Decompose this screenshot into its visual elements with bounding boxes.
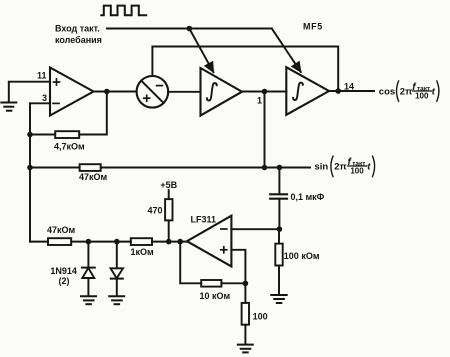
svg-text:10 кОм: 10 кОм xyxy=(200,291,231,301)
LF311 plus sign xyxy=(221,247,227,253)
fraction bar (cos) xyxy=(413,90,432,92)
resistor 4,7кОм xyxy=(55,131,79,138)
wire: 470 down to output node xyxy=(168,220,170,241)
capacitor 0,1 мкФ xyxy=(270,194,287,198)
svg-text:sin: sin xyxy=(315,161,329,172)
label MF5 xyxy=(303,22,323,32)
wire: integrator 1 to integrator 2 xyxy=(242,91,286,93)
svg-text:0,1 мкФ: 0,1 мкФ xyxy=(291,192,325,202)
wire: 10k to node C xyxy=(221,282,245,284)
wire: LF311 non-inverting input xyxy=(231,250,245,284)
node: diode D2 tap xyxy=(114,239,120,245)
integral sign (integrator 1) xyxy=(207,83,217,100)
diode D2 (pointing down) xyxy=(116,242,118,269)
node: integrator tap on sin line xyxy=(262,165,268,171)
svg-text:колебания: колебания xyxy=(55,35,102,45)
wire: op-amp pin 11 to ground xyxy=(9,82,50,102)
parentheses (sin) xyxy=(331,156,375,176)
wire: clock arrow to integrator 2 xyxy=(272,29,301,73)
label 1N914 (2) xyxy=(50,266,77,286)
resistor 47кОм (bottom) xyxy=(48,238,71,245)
node: bus / 4.7k junction xyxy=(27,132,33,138)
resistor 10кОм xyxy=(201,280,221,287)
node 1 xyxy=(262,89,268,95)
LF311 minus sign xyxy=(221,228,227,230)
svg-text:11: 11 xyxy=(37,71,47,81)
svg-text:1кОм: 1кОм xyxy=(131,247,155,257)
node: capacitor tap on sin line xyxy=(277,165,283,171)
junction on clock line xyxy=(187,26,193,32)
svg-text:t: t xyxy=(432,87,436,98)
ground (bottom) xyxy=(238,345,253,353)
svg-text:47кОм: 47кОм xyxy=(79,172,108,182)
wire: node 1 down to sin line xyxy=(264,92,266,168)
wire: integrator 2 output / pin 14 xyxy=(329,90,374,92)
label node 1 xyxy=(257,96,262,106)
op-amp U1 (pins 11/3) xyxy=(50,68,94,116)
comparator LF311 xyxy=(187,216,232,267)
wire: node C down to 100 xyxy=(244,283,246,303)
wire: +5V to 470 xyxy=(168,190,170,199)
integrator 2 xyxy=(286,67,329,115)
wire: capacitor to node B xyxy=(278,199,280,230)
parentheses (cos) xyxy=(397,81,439,101)
wire: clock arrow to integrator 1 xyxy=(189,29,213,73)
svg-text:(2): (2) xyxy=(59,276,70,286)
diode D1 (pointing up) xyxy=(87,242,89,268)
formula sin(2π f/100 t) xyxy=(315,157,372,176)
svg-text:100: 100 xyxy=(253,311,268,321)
svg-text:Вход такт.: Вход такт. xyxy=(55,24,100,34)
svg-text:3: 3 xyxy=(42,93,47,103)
node: bus / sin line xyxy=(27,165,33,171)
wire: sin line xyxy=(30,167,310,169)
node C: hysteresis divider xyxy=(243,281,249,287)
wire: sin line down to capacitor xyxy=(278,168,280,195)
wire: 1k to comparator output node xyxy=(152,241,187,243)
integrator 1 xyxy=(201,68,243,116)
clock waveform symbol xyxy=(101,6,146,16)
node: 470 pull-up tap xyxy=(166,239,172,245)
node: pin 14 output xyxy=(335,88,341,94)
wire: 100k to ground xyxy=(278,266,280,295)
modulator plus sign xyxy=(144,95,150,101)
svg-text:1N914: 1N914 xyxy=(50,266,77,276)
svg-text:MF5: MF5 xyxy=(303,22,323,32)
formula cos(2π f/100 t) xyxy=(379,82,436,101)
resistor 100 xyxy=(242,303,249,325)
label +5В xyxy=(160,180,177,190)
wire: left vertical bus xyxy=(29,103,31,241)
node B: cap / 100k / comparator inverting input xyxy=(277,226,283,232)
svg-text:cos: cos xyxy=(379,86,395,97)
wire: op-amp output to modulator xyxy=(94,91,137,93)
modulator minus sign xyxy=(157,85,163,87)
ground (top-left) xyxy=(1,103,16,111)
svg-text:t: t xyxy=(367,162,371,173)
pin label 14 xyxy=(344,82,354,92)
svg-text:2π: 2π xyxy=(334,162,347,173)
resistor 1кОм xyxy=(131,238,152,245)
wire: feedback from node 14 to modulator top xyxy=(152,47,338,92)
svg-text:100 кОм: 100 кОм xyxy=(284,251,320,261)
svg-text:1: 1 xyxy=(257,96,262,106)
wire: op-amp pin 3 input xyxy=(30,102,50,104)
resistor 100кОм xyxy=(275,244,282,266)
pin label 11 xyxy=(37,71,47,81)
wire: node B to LF311 inverting input xyxy=(231,228,279,230)
resistor 47кОм (sin line) xyxy=(80,164,101,171)
modulator (summing) circle xyxy=(137,76,169,108)
ground (under 100k) xyxy=(271,295,286,303)
wire: clock input horizontal xyxy=(107,28,272,30)
modulator diagonal xyxy=(141,81,163,103)
wire: 4.7k left to bus xyxy=(30,134,55,136)
node: comparator output xyxy=(177,239,183,245)
svg-text:100: 100 xyxy=(415,92,429,101)
wire: output node down to 4.7k feedback xyxy=(79,92,107,135)
pin label 3 xyxy=(42,93,47,103)
svg-text:470: 470 xyxy=(147,205,162,215)
node: op-amp output xyxy=(104,89,110,95)
svg-text:+5В: +5В xyxy=(160,180,177,190)
label LF311 xyxy=(191,215,217,225)
svg-text:14: 14 xyxy=(344,82,354,92)
svg-text:2π: 2π xyxy=(400,87,413,98)
wire: comparator output down to 10k xyxy=(180,242,201,284)
wire: bus corner to bottom 47k xyxy=(30,241,48,243)
svg-text:47кОм: 47кОм xyxy=(47,225,76,235)
wire: 100 to ground xyxy=(244,325,246,344)
wire: node B down to 100k xyxy=(278,229,280,243)
integral sign (integrator 2) xyxy=(293,83,303,100)
fraction bar (sin) xyxy=(348,165,367,167)
ground (under D2) xyxy=(109,296,124,304)
ground (under D1) xyxy=(81,296,96,304)
wire: 47k to 1k xyxy=(71,241,131,243)
wire: modulator to integrator 1 xyxy=(168,91,200,93)
svg-text:LF311: LF311 xyxy=(191,215,217,225)
svg-text:4,7кОм: 4,7кОм xyxy=(54,141,85,151)
svg-text:100: 100 xyxy=(350,167,364,176)
label: Вход такт. колебания xyxy=(55,24,102,46)
resistor 470 xyxy=(165,199,172,220)
node: diode D1 tap xyxy=(86,239,92,245)
